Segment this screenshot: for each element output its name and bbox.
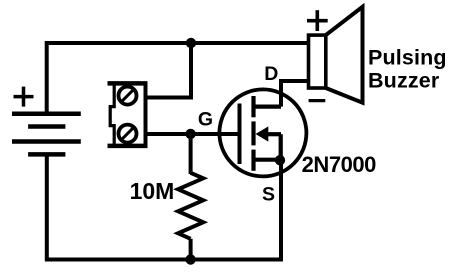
terminal block J1 [108,83,148,145]
transistor channel segment drain side [251,96,255,117]
wire from G node down to resistor [189,134,193,174]
battery plus polarity mark [14,87,34,107]
node junction bottom rail [185,254,195,264]
buzzer plus polarity mark [307,10,328,31]
node S junction [275,155,285,165]
transistor body to source connector [279,134,283,160]
transistor gate bar [238,104,242,165]
transistor channel segment source side [251,150,255,171]
resistor R1 10M [178,173,203,239]
svg-text:G: G [198,108,213,130]
svg-text:S: S [262,183,275,205]
battery B1 [12,114,81,155]
svg-text:2N7000: 2N7000 [302,152,377,177]
transistor channel segment body [251,121,255,145]
wire drain to buzzer [281,81,310,107]
buzzer minus polarity mark [309,99,326,102]
wire from resistor to bottom rail [189,239,193,260]
svg-text:Buzzer: Buzzer [368,69,440,93]
buzzer horn cone [326,7,363,103]
svg-text:D: D [264,63,278,85]
wire bottom rail from battery negative to source [47,154,281,259]
node G junction [185,129,195,139]
buzzer LS1 driver rectangle [309,35,326,88]
wire from top junction down to terminal block pin 1 [146,43,192,98]
transistor drain stub [254,104,282,108]
transistor Q1 2N7000 body circle [219,89,306,176]
transistor source stub [254,158,282,162]
node junction top rail [186,38,196,48]
svg-text:10M: 10M [130,178,175,204]
wire top rail from battery positive to buzzer [47,43,310,114]
transistor body arrow head [256,126,269,141]
transistor body arrow shaft [267,132,281,136]
wire from terminal block pin 2 to gate [146,132,240,136]
svg-text:Pulsing: Pulsing [368,46,447,70]
